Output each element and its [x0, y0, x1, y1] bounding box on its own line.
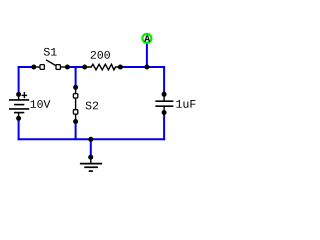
- wire ammeter stub: [146, 43, 148, 67]
- wire S2 branch upper: [75, 66, 77, 87]
- node S1 right dot: [65, 65, 70, 70]
- node ground junction dot: [88, 137, 93, 142]
- battery V1: [9, 94, 29, 118]
- capacitor C1: [155, 94, 173, 112]
- node capacitor bottom dot: [162, 110, 167, 115]
- node battery bottom dot: [16, 116, 21, 121]
- node battery top dot: [16, 92, 21, 97]
- label S2: [86, 102, 99, 110]
- switch S1: [34, 60, 67, 70]
- ammeter letter A: [144, 35, 150, 41]
- wire bottom horizontal: [18, 138, 166, 140]
- wire right vertical lower: [163, 113, 165, 141]
- wire right vertical upper: [163, 66, 165, 94]
- node S1 left dot: [31, 65, 36, 70]
- wire top-right horizontal: [120, 66, 166, 68]
- wire left vertical upper: [18, 66, 20, 94]
- wire ground stub: [90, 139, 92, 157]
- wire top-middle horizontal: [66, 66, 86, 68]
- battery plus sign: [22, 92, 28, 98]
- node resistor left dot: [82, 65, 87, 70]
- label 10V: [31, 100, 51, 108]
- wire top-left horizontal: [18, 66, 36, 68]
- label S1: [44, 48, 57, 56]
- label 1uF: [176, 100, 195, 108]
- node ground terminal dot: [88, 155, 93, 160]
- ammeter A1: [142, 34, 151, 43]
- node S2 top dot: [73, 85, 78, 90]
- node resistor right dot: [118, 65, 123, 70]
- wire left vertical lower: [18, 118, 20, 140]
- ground: [80, 157, 102, 171]
- node ammeter junction dot: [144, 65, 149, 70]
- label 200: [91, 51, 110, 59]
- resistor R1 200: [85, 64, 121, 70]
- node S2 bottom dot: [73, 119, 78, 124]
- wire S2 branch lower: [75, 122, 77, 140]
- node capacitor top dot: [162, 92, 167, 97]
- switch S2: [73, 87, 77, 121]
